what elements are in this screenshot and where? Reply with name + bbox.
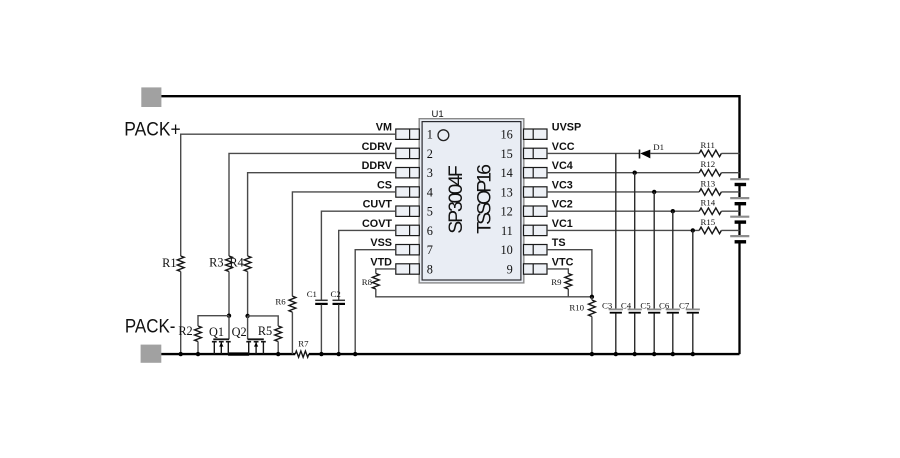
- svg-text:7: 7: [427, 243, 433, 257]
- svg-text:R4: R4: [229, 256, 243, 270]
- svg-text:VC1: VC1: [552, 218, 573, 230]
- op-amp / IC U1 SP3004F TSSOP16 body: [419, 109, 524, 283]
- capacitor C7: [679, 300, 700, 312]
- wire R6 to ground rail: [291, 312, 293, 354]
- svg-text:VTD: VTD: [370, 256, 392, 268]
- wire R4 to Q2 gate node: [247, 272, 249, 316]
- wire TS pin10 to node: [547, 250, 592, 297]
- wire R11 to battery bus: [721, 152, 739, 154]
- svg-text:R5: R5: [258, 324, 272, 338]
- resistor R5: [258, 324, 282, 342]
- svg-text:CDRV: CDRV: [362, 141, 393, 153]
- capacitor C4: [621, 300, 642, 312]
- wire R9 bottom to node: [567, 289, 569, 297]
- resistor R8: [362, 274, 379, 289]
- svg-text:C2: C2: [331, 289, 341, 299]
- wire VCC pin15 to D1: [547, 152, 640, 154]
- wire bottom ground rail (left of R7): [161, 353, 295, 355]
- resistor R3: [209, 256, 232, 272]
- svg-text:3: 3: [427, 166, 433, 180]
- svg-text:SP3004F: SP3004F: [445, 165, 467, 234]
- wire VC3 pin13 to R13: [547, 191, 699, 193]
- wire R3 to Q1 gate node: [228, 272, 230, 316]
- wire R2 bottom to ground: [197, 342, 199, 355]
- pin 15: [501, 147, 547, 161]
- resistor R15: [699, 217, 721, 234]
- svg-text:R13: R13: [701, 178, 716, 188]
- svg-text:6: 6: [427, 224, 433, 238]
- svg-text:VCC: VCC: [552, 141, 575, 153]
- wire R1 to ground rail: [180, 272, 182, 355]
- wire DDRV pin3 to R4: [248, 173, 396, 256]
- battery cell BT3: [730, 217, 749, 222]
- pin 4: [396, 185, 433, 199]
- svg-text:R1: R1: [162, 256, 176, 270]
- wire C6 to ground rail: [672, 313, 674, 354]
- pin 12: [501, 205, 547, 219]
- resistor R13: [699, 178, 721, 195]
- wire VM pin1 to R1 line: [181, 134, 396, 256]
- wire Q2 gate node to gate: [247, 316, 249, 339]
- PACK- terminal: [141, 345, 162, 363]
- junction R5/ground: [276, 352, 280, 356]
- svg-text:COVT: COVT: [362, 218, 392, 230]
- junction C4/ground: [633, 352, 637, 356]
- resistor R1: [162, 256, 184, 271]
- wire R13 to battery tap: [721, 191, 739, 193]
- junction R10/ground: [590, 352, 594, 356]
- pin 8: [396, 262, 433, 276]
- wire R5 top to Q2 gate node: [248, 316, 279, 326]
- svg-text:R2: R2: [178, 324, 192, 338]
- wire node to R10: [591, 297, 593, 300]
- svg-text:11: 11: [501, 224, 513, 238]
- svg-text:15: 15: [501, 147, 513, 161]
- svg-text:TSSOP16: TSSOP16: [474, 164, 496, 234]
- capacitor C6: [659, 300, 680, 312]
- svg-text:PACK-: PACK-: [125, 317, 175, 338]
- svg-text:R8: R8: [362, 277, 373, 287]
- transistor Q2 (NMOS): [232, 325, 266, 354]
- PACK+ terminal: [141, 87, 161, 107]
- pin 7: [396, 243, 433, 257]
- resistor R10: [569, 300, 595, 317]
- svg-text:PACK+: PACK+: [124, 120, 180, 141]
- svg-text:DDRV: DDRV: [362, 160, 393, 172]
- resistor R14: [699, 198, 721, 215]
- junction VC1 tap: [691, 228, 695, 232]
- svg-text:14: 14: [501, 166, 513, 180]
- pin 9: [507, 262, 547, 276]
- wire CDRV pin2 to R3: [229, 153, 396, 256]
- svg-text:C6: C6: [659, 300, 670, 310]
- wire C4 to ground rail: [634, 313, 636, 354]
- junction VSS/ground: [353, 352, 357, 356]
- wire VSS pin7 to ground: [355, 250, 396, 354]
- wire VC tap to C5: [653, 192, 655, 309]
- svg-text:R14: R14: [701, 198, 716, 208]
- svg-text:R12: R12: [701, 159, 716, 169]
- junction C5/ground: [652, 352, 656, 356]
- wire R12 to battery tap: [721, 172, 739, 174]
- svg-text:10: 10: [501, 243, 513, 257]
- svg-text:VC3: VC3: [552, 179, 573, 191]
- svg-text:5: 5: [427, 205, 433, 219]
- wire battery bus segment: [738, 222, 740, 236]
- wire VC tap to C3: [615, 153, 617, 308]
- svg-text:R6: R6: [275, 297, 286, 307]
- svg-text:13: 13: [501, 185, 513, 199]
- transistor Q1 (NMOS): [209, 325, 231, 354]
- svg-text:U1: U1: [432, 109, 444, 120]
- diode D1: [640, 142, 665, 158]
- svg-text:12: 12: [501, 205, 513, 219]
- wire R15 to battery tap: [721, 229, 739, 231]
- svg-text:R7: R7: [298, 338, 309, 348]
- junction VC4 tap: [633, 171, 637, 175]
- wire bottom ground rail (right of R7): [309, 353, 740, 355]
- wire right bus battery bottom to ground rail: [738, 242, 740, 354]
- wire CS pin4 to R6: [292, 192, 395, 296]
- wire VTC pin9 to R9: [547, 269, 568, 274]
- svg-text:9: 9: [507, 262, 513, 276]
- svg-text:C3: C3: [602, 300, 613, 310]
- svg-text:16: 16: [501, 128, 513, 142]
- wire battery bus segment: [738, 185, 740, 199]
- capacitor C2: [331, 289, 346, 304]
- svg-text:VM: VM: [376, 122, 392, 134]
- svg-text:R15: R15: [701, 217, 716, 227]
- junction Q1 gate node: [227, 314, 231, 318]
- svg-text:2: 2: [427, 147, 433, 161]
- resistor R2: [178, 324, 201, 342]
- resistor R4: [229, 256, 251, 272]
- junction C2/ground: [337, 352, 341, 356]
- svg-text:R9: R9: [551, 277, 562, 287]
- wire C3 to ground rail: [615, 313, 617, 354]
- junction C1/ground: [319, 352, 323, 356]
- wire R2 top to Q1 gate node: [198, 316, 229, 326]
- resistor R6: [275, 296, 295, 312]
- junction R2/ground: [196, 352, 200, 356]
- junction TS/R8/R9/R10 node: [590, 295, 594, 299]
- pin 2: [396, 147, 433, 161]
- wire VC1 pin11 to R15: [547, 229, 699, 231]
- wire CUVT pin5 to C1: [321, 211, 395, 300]
- svg-text:C5: C5: [640, 300, 651, 310]
- junction VC2 tap: [671, 209, 675, 213]
- capacitor C1: [307, 289, 328, 304]
- svg-text:Q1: Q1: [209, 325, 224, 339]
- wire R14 to battery tap: [721, 210, 739, 212]
- capacitor C3: [602, 300, 623, 312]
- pin 13: [501, 185, 547, 199]
- pin 11: [501, 224, 547, 238]
- wire R8 bottom to TS node: [376, 289, 592, 297]
- svg-text:CUVT: CUVT: [363, 199, 393, 211]
- svg-text:1: 1: [427, 128, 433, 142]
- capacitor C5: [640, 300, 661, 312]
- wire PACK+ top rail to battery top: [161, 96, 739, 179]
- wire VC tap to C4: [634, 173, 636, 309]
- battery cell BT2: [730, 198, 749, 204]
- wire R10 to ground rail: [591, 317, 593, 355]
- pin 16: [501, 128, 547, 142]
- svg-text:VSS: VSS: [370, 237, 392, 249]
- pin 14: [501, 166, 547, 180]
- resistor R12: [699, 159, 721, 176]
- svg-text:8: 8: [427, 262, 433, 276]
- svg-text:CS: CS: [377, 179, 392, 191]
- pin 1: [396, 128, 433, 142]
- resistor R11: [699, 140, 721, 157]
- wire Q1 gate node to gate: [228, 316, 230, 340]
- pin 5: [396, 205, 433, 219]
- wire VTD pin8 to R8: [376, 269, 396, 274]
- wire COVT pin6 to C2: [339, 230, 396, 300]
- pin 6: [396, 224, 433, 238]
- svg-text:R10: R10: [569, 303, 584, 313]
- junction C7/ground: [691, 352, 695, 356]
- svg-text:R11: R11: [701, 140, 715, 150]
- junction R1/ground: [179, 352, 183, 356]
- wire C2 to ground: [338, 305, 340, 355]
- junction Q2 gate node: [245, 314, 249, 318]
- wire battery bus segment: [738, 204, 740, 217]
- svg-text:VC2: VC2: [552, 199, 573, 211]
- wire thick common drain segment Q1-Q2: [228, 352, 249, 355]
- svg-text:VTC: VTC: [552, 256, 574, 268]
- wire R5 bottom to ground: [277, 342, 279, 355]
- svg-text:Q2: Q2: [232, 325, 247, 339]
- wire C1 to ground: [320, 305, 322, 355]
- wire VC4 pin14 to R12: [547, 172, 699, 174]
- wire VC tap to C6: [672, 211, 674, 309]
- svg-text:R3: R3: [209, 256, 223, 270]
- svg-text:UVSP: UVSP: [552, 122, 581, 134]
- pin 10: [501, 243, 547, 257]
- wire D1 to R11: [650, 152, 699, 154]
- battery cell BT1: [730, 179, 749, 184]
- wire C5 to ground rail: [653, 313, 655, 354]
- wire C7 to ground rail: [692, 313, 694, 354]
- resistor R9: [551, 274, 571, 289]
- wire VC tap to C7: [692, 230, 694, 308]
- svg-text:VC4: VC4: [552, 160, 573, 172]
- junction VC3 tap: [652, 190, 656, 194]
- battery cell BT4: [730, 236, 749, 242]
- svg-text:C1: C1: [307, 289, 317, 299]
- svg-text:C4: C4: [621, 300, 632, 310]
- wire VC2 pin12 to R14: [547, 210, 699, 212]
- svg-text:D1: D1: [653, 142, 664, 152]
- svg-text:4: 4: [427, 185, 433, 199]
- svg-text:TS: TS: [552, 237, 566, 249]
- svg-text:C7: C7: [679, 300, 690, 310]
- pin 3: [396, 166, 433, 180]
- junction C6/ground: [671, 352, 675, 356]
- junction C3/ground: [614, 352, 618, 356]
- resistor R7 (inline ground rail): [295, 338, 309, 357]
